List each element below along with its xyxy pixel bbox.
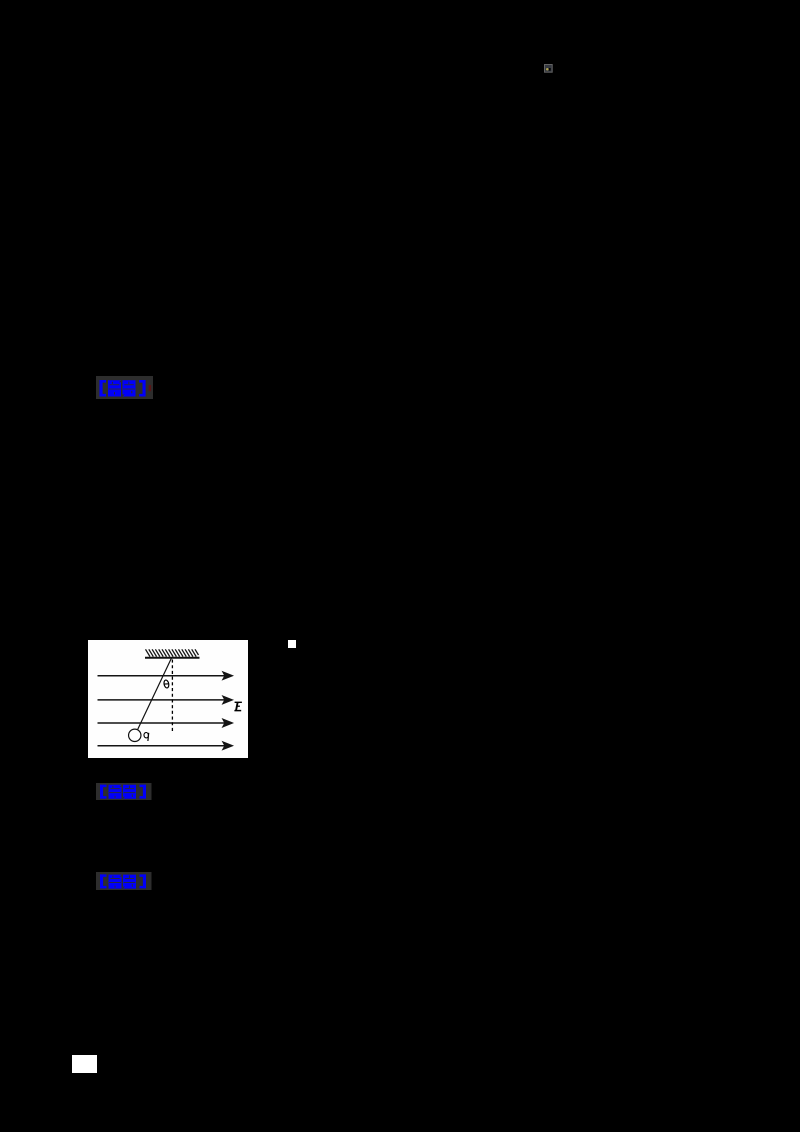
charge ball q xyxy=(129,729,141,741)
label box 2 (blue bracket label) xyxy=(96,783,152,800)
left bracket xyxy=(100,380,107,397)
glyph texture cuts char1 xyxy=(110,787,119,790)
field arrow 3 xyxy=(98,720,233,727)
glyph texture cuts char1 xyxy=(110,383,119,386)
ceiling hatching xyxy=(146,649,199,656)
right bracket xyxy=(140,874,147,888)
pendulum string xyxy=(138,658,172,729)
char 1 xyxy=(109,875,122,889)
label box 1 (blue bracket label) xyxy=(96,376,154,400)
glyph texture cuts char2 xyxy=(125,877,134,880)
char 2 xyxy=(123,380,136,396)
char 1 xyxy=(108,380,121,396)
field arrow 4 xyxy=(98,742,233,749)
small white square bullet xyxy=(288,640,296,648)
label box 3 (blue bracket label) xyxy=(96,872,152,890)
field label E xyxy=(234,702,242,710)
broken-image placeholder icon xyxy=(544,64,553,73)
field arrow 1 xyxy=(98,672,233,679)
right bracket xyxy=(140,785,147,799)
tiny dark red mark xyxy=(149,385,152,391)
char 1 xyxy=(109,785,122,799)
char 2 xyxy=(123,875,136,889)
physics diagram: charged pendulum in uniform field E xyxy=(88,640,248,758)
angle label theta xyxy=(163,680,169,689)
glyph texture cuts char2 xyxy=(125,787,134,790)
char 2 xyxy=(123,785,136,799)
field arrow 2 xyxy=(98,696,233,703)
charge label q xyxy=(144,732,149,741)
ceiling bar xyxy=(145,657,200,659)
small white image placeholder (bottom left) xyxy=(72,1055,97,1073)
glyph texture cuts char2 xyxy=(124,383,133,386)
left bracket xyxy=(100,785,107,799)
glyph texture cuts char1 xyxy=(110,877,119,880)
left bracket xyxy=(100,874,107,888)
right bracket xyxy=(139,380,146,397)
dashed vertical reference line xyxy=(171,660,173,734)
